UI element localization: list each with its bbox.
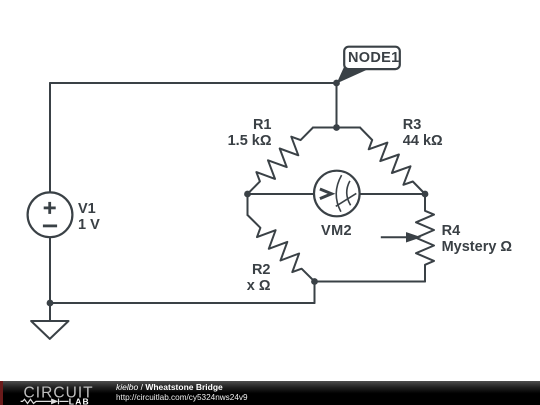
wire top horizontal [50, 82, 337, 84]
node bridge top [333, 124, 340, 131]
wire voltmeter to right node [360, 193, 426, 195]
wire left vertical to V1 [49, 83, 51, 192]
ground [49, 303, 51, 321]
label VM2 [321, 223, 352, 239]
voltmeter VM2 [314, 171, 360, 217]
resistor R3 [360, 128, 425, 195]
label NODE1 [348, 50, 399, 66]
wire bottom horizontal [50, 302, 315, 304]
V1 minus sign [43, 224, 57, 227]
footer bar [0, 381, 540, 405]
wire left node to voltmeter [248, 193, 315, 195]
resistor R2 [248, 215, 315, 282]
node ground junction [47, 300, 54, 307]
wire bridge top stubs [313, 127, 360, 129]
resistor R1 [248, 128, 314, 195]
label R3 value [403, 117, 443, 149]
node A junction NODE1 [333, 80, 340, 87]
resistor R4 [416, 194, 434, 282]
NODE1 flag [337, 47, 400, 84]
label R1 value [225, 117, 272, 149]
svg-text:LAB: LAB [69, 397, 90, 405]
voltmeter glyph [320, 175, 356, 212]
node bridge left [244, 191, 251, 198]
wire V1 bottom to ground junction [49, 237, 51, 303]
label R4 value [442, 223, 512, 255]
node bridge bottom [311, 278, 318, 285]
wire left node down [247, 194, 249, 215]
voltage source V1 [28, 192, 73, 237]
CircuitLab logo [0, 381, 110, 405]
wire NODE1 down to bridge top [336, 83, 338, 128]
wire bottom junction up [314, 282, 316, 304]
wire R4 bottom to junction [315, 281, 426, 283]
R4 arrow [381, 234, 418, 242]
node bridge right [422, 191, 429, 198]
label V1 value [78, 201, 100, 233]
V1 plus sign [43, 202, 57, 226]
label R2 value [224, 262, 271, 294]
